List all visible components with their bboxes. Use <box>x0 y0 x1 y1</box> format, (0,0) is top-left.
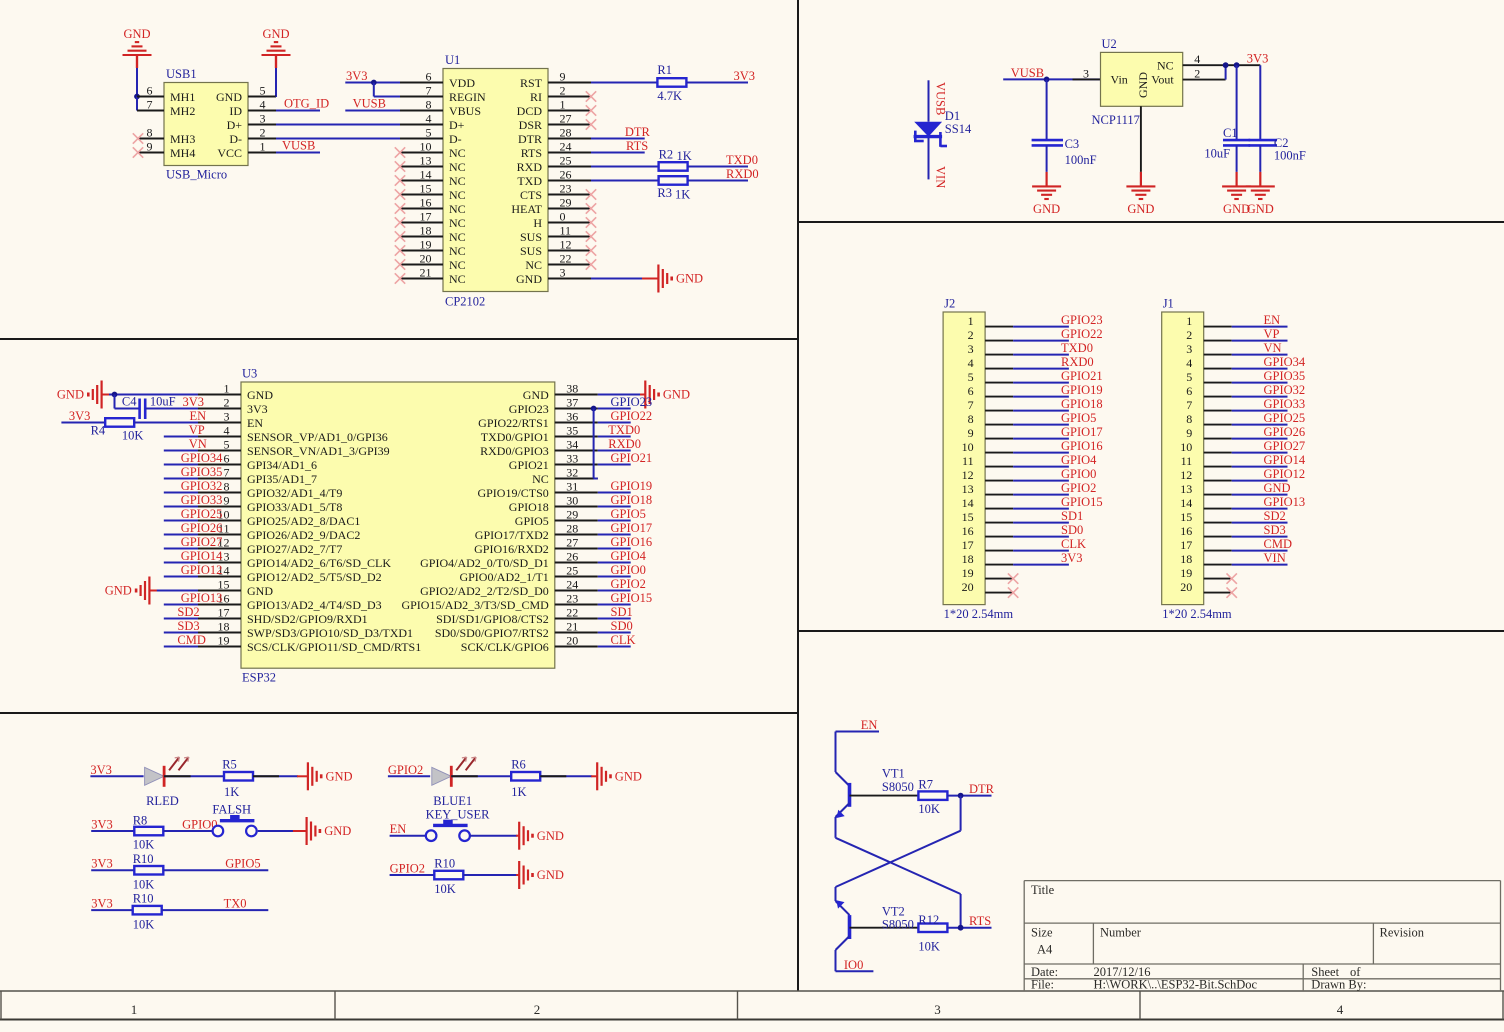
svg-text:GPIO0: GPIO0 <box>1061 467 1096 481</box>
svg-text:GND: GND <box>676 272 703 286</box>
svg-text:4: 4 <box>1186 356 1192 370</box>
svg-text:16: 16 <box>1180 524 1192 538</box>
svg-text:18: 18 <box>218 620 230 634</box>
svg-text:1: 1 <box>131 1002 138 1017</box>
svg-text:RI: RI <box>530 90 542 104</box>
svg-text:D1: D1 <box>945 109 960 123</box>
svg-text:12: 12 <box>560 238 572 252</box>
svg-text:NC: NC <box>449 216 466 230</box>
svg-text:GPIO33: GPIO33 <box>181 493 223 507</box>
svg-text:GPIO15: GPIO15 <box>1061 495 1103 509</box>
svg-text:USB_Micro: USB_Micro <box>166 168 227 182</box>
svg-text:GPIO2: GPIO2 <box>611 577 646 591</box>
svg-text:VN: VN <box>189 437 207 451</box>
svg-text:Size: Size <box>1031 926 1053 940</box>
svg-text:SD1: SD1 <box>1061 509 1083 523</box>
svg-text:GPIO16/RXD2: GPIO16/RXD2 <box>474 542 549 556</box>
svg-text:Revision: Revision <box>1380 926 1425 940</box>
svg-text:EN: EN <box>390 822 407 836</box>
svg-text:GND: GND <box>247 388 273 402</box>
svg-text:29: 29 <box>566 508 578 522</box>
svg-text:EN: EN <box>1264 313 1281 327</box>
svg-text:3V3: 3V3 <box>183 395 205 409</box>
svg-text:R7: R7 <box>918 777 933 791</box>
svg-text:10K: 10K <box>122 428 144 442</box>
svg-text:14: 14 <box>962 496 974 510</box>
svg-text:DTR: DTR <box>518 132 542 146</box>
svg-text:GPIO12/AD2_5/T5/SD_D2: GPIO12/AD2_5/T5/SD_D2 <box>247 570 382 584</box>
svg-text:NC: NC <box>449 188 466 202</box>
svg-text:NC: NC <box>525 258 542 272</box>
svg-text:KEY_USER: KEY_USER <box>426 807 491 821</box>
svg-text:GPIO13: GPIO13 <box>1264 495 1306 509</box>
svg-text:VUSB: VUSB <box>1011 66 1044 80</box>
svg-text:A4: A4 <box>1037 943 1053 957</box>
svg-text:33: 33 <box>566 452 578 466</box>
svg-text:GND: GND <box>324 824 351 838</box>
svg-text:GPIO23: GPIO23 <box>1061 313 1103 327</box>
svg-text:18: 18 <box>962 552 974 566</box>
svg-text:J2: J2 <box>944 297 955 311</box>
svg-text:3: 3 <box>968 342 974 356</box>
svg-text:28: 28 <box>566 522 578 536</box>
svg-text:SWP/SD3/GPIO10/SD_D3/TXD1: SWP/SD3/GPIO10/SD_D3/TXD1 <box>247 626 413 640</box>
svg-text:GPIO27: GPIO27 <box>181 535 223 549</box>
svg-text:R4: R4 <box>91 424 106 438</box>
svg-text:36: 36 <box>566 410 578 424</box>
svg-text:U1: U1 <box>445 53 460 67</box>
svg-text:3: 3 <box>260 112 266 126</box>
svg-text:15: 15 <box>218 578 230 592</box>
svg-text:R2: R2 <box>659 148 674 162</box>
svg-text:6: 6 <box>1186 384 1192 398</box>
svg-text:RST: RST <box>520 76 543 90</box>
svg-text:GPIO22: GPIO22 <box>1061 327 1103 341</box>
svg-text:R10: R10 <box>133 892 154 906</box>
svg-text:15: 15 <box>962 510 974 524</box>
svg-text:15: 15 <box>420 182 432 196</box>
svg-text:CMD: CMD <box>1264 537 1292 551</box>
svg-text:DTR: DTR <box>625 125 651 139</box>
svg-text:2: 2 <box>968 328 974 342</box>
svg-text:3V3: 3V3 <box>1247 52 1269 66</box>
svg-text:GPIO4: GPIO4 <box>611 549 647 563</box>
svg-text:NC: NC <box>449 258 466 272</box>
svg-text:13: 13 <box>420 154 432 168</box>
svg-text:34: 34 <box>566 438 578 452</box>
svg-text:C3: C3 <box>1065 137 1080 151</box>
svg-text:0: 0 <box>560 210 566 224</box>
svg-text:1K: 1K <box>511 785 526 799</box>
svg-text:1*20 2.54mm: 1*20 2.54mm <box>1162 607 1232 621</box>
svg-text:NC: NC <box>449 160 466 174</box>
svg-text:S8050: S8050 <box>882 918 914 932</box>
svg-text:3: 3 <box>1186 342 1192 356</box>
svg-text:C4: C4 <box>122 395 137 409</box>
svg-text:VT2: VT2 <box>882 904 905 918</box>
svg-text:VT1: VT1 <box>882 767 905 781</box>
svg-text:GPIO17/TXD2: GPIO17/TXD2 <box>475 528 549 542</box>
svg-text:10K: 10K <box>918 940 940 954</box>
svg-text:GPIO21: GPIO21 <box>1061 369 1103 383</box>
svg-text:9: 9 <box>560 70 566 84</box>
svg-text:14: 14 <box>420 168 432 182</box>
svg-text:SHD/SD2/GPIO9/RXD1: SHD/SD2/GPIO9/RXD1 <box>247 612 368 626</box>
svg-text:GPIO17: GPIO17 <box>1061 425 1103 439</box>
svg-text:2: 2 <box>224 396 230 410</box>
svg-text:NC: NC <box>532 472 549 486</box>
svg-text:SUS: SUS <box>520 244 542 258</box>
svg-text:GND: GND <box>262 27 289 41</box>
svg-text:GPIO32: GPIO32 <box>181 479 223 493</box>
svg-text:MH2: MH2 <box>170 104 195 118</box>
svg-text:3V3: 3V3 <box>90 763 112 777</box>
svg-text:GPIO14: GPIO14 <box>181 549 223 563</box>
svg-text:GPIO21: GPIO21 <box>611 451 653 465</box>
svg-text:10K: 10K <box>434 882 456 896</box>
svg-text:GND: GND <box>1264 481 1291 495</box>
svg-text:S8050: S8050 <box>882 780 914 794</box>
svg-text:2: 2 <box>560 84 566 98</box>
svg-text:7: 7 <box>147 98 153 112</box>
svg-text:GND: GND <box>1247 202 1274 216</box>
svg-text:1: 1 <box>224 382 230 396</box>
svg-text:D-: D- <box>449 132 462 146</box>
svg-text:GPIO19/CTS0: GPIO19/CTS0 <box>477 486 548 500</box>
svg-text:U2: U2 <box>1102 37 1117 51</box>
svg-text:NC: NC <box>449 272 466 286</box>
svg-text:2: 2 <box>1194 66 1200 80</box>
svg-text:GPIO12: GPIO12 <box>1264 467 1306 481</box>
svg-text:Vin: Vin <box>1111 73 1128 87</box>
svg-text:REGIN: REGIN <box>449 90 486 104</box>
svg-text:14: 14 <box>1180 496 1192 510</box>
svg-text:RXD0/GPIO3: RXD0/GPIO3 <box>480 444 549 458</box>
svg-text:4: 4 <box>224 424 230 438</box>
svg-text:4: 4 <box>426 112 432 126</box>
svg-text:R3: R3 <box>657 186 672 200</box>
svg-text:GPIO33/AD1_5/T8: GPIO33/AD1_5/T8 <box>247 500 342 514</box>
svg-text:4: 4 <box>1194 52 1200 66</box>
svg-text:FALSH: FALSH <box>212 803 251 817</box>
svg-text:2: 2 <box>260 126 266 140</box>
svg-text:GPIO25/AD2_8/DAC1: GPIO25/AD2_8/DAC1 <box>247 514 360 528</box>
svg-text:GPIO35: GPIO35 <box>1264 369 1306 383</box>
svg-text:MH4: MH4 <box>170 146 195 160</box>
svg-text:18: 18 <box>1180 552 1192 566</box>
svg-text:NC: NC <box>449 244 466 258</box>
svg-text:RXD0: RXD0 <box>1061 355 1094 369</box>
svg-text:R10: R10 <box>434 857 455 871</box>
svg-text:27: 27 <box>566 536 578 550</box>
svg-text:12: 12 <box>962 468 974 482</box>
svg-text:5: 5 <box>224 438 230 452</box>
svg-text:MH1: MH1 <box>170 90 195 104</box>
svg-text:9: 9 <box>1186 426 1192 440</box>
svg-text:5: 5 <box>1186 370 1192 384</box>
svg-text:TXD0: TXD0 <box>726 153 758 167</box>
svg-text:4: 4 <box>968 356 974 370</box>
svg-text:GPIO18: GPIO18 <box>509 500 549 514</box>
svg-text:GPIO0/AD2_1/T1: GPIO0/AD2_1/T1 <box>459 570 548 584</box>
svg-text:19: 19 <box>962 566 974 580</box>
svg-text:NC: NC <box>1157 59 1174 73</box>
svg-text:11: 11 <box>560 224 572 238</box>
svg-text:Number: Number <box>1100 926 1142 940</box>
svg-text:21: 21 <box>566 620 578 634</box>
svg-text:25: 25 <box>566 564 578 578</box>
svg-text:20: 20 <box>420 252 432 266</box>
svg-text:GND: GND <box>516 272 542 286</box>
svg-text:R1: R1 <box>657 63 672 77</box>
svg-text:GPIO25: GPIO25 <box>1264 411 1306 425</box>
svg-text:26: 26 <box>560 168 572 182</box>
svg-text:8: 8 <box>968 412 974 426</box>
svg-text:11: 11 <box>1181 454 1193 468</box>
svg-text:GPIO27/AD2_7/T7: GPIO27/AD2_7/T7 <box>247 542 342 556</box>
svg-text:GPIO13/AD2_4/T4/SD_D3: GPIO13/AD2_4/T4/SD_D3 <box>247 598 382 612</box>
svg-text:30: 30 <box>566 494 578 508</box>
svg-text:SCK/CLK/GPIO6: SCK/CLK/GPIO6 <box>461 640 549 654</box>
svg-text:11: 11 <box>962 454 974 468</box>
svg-text:100nF: 100nF <box>1274 149 1306 163</box>
svg-text:GPIO15/AD2_3/T3/SD_CMD: GPIO15/AD2_3/T3/SD_CMD <box>401 598 549 612</box>
svg-text:H: H <box>533 216 542 230</box>
svg-text:CTS: CTS <box>520 188 542 202</box>
svg-text:9: 9 <box>147 140 153 154</box>
svg-text:GPIO14: GPIO14 <box>1264 453 1306 467</box>
svg-text:VBUS: VBUS <box>449 104 481 118</box>
svg-text:1K: 1K <box>675 188 690 202</box>
svg-text:MH3: MH3 <box>170 132 195 146</box>
svg-text:20: 20 <box>1180 580 1192 594</box>
svg-text:R6: R6 <box>511 758 526 772</box>
svg-text:23: 23 <box>566 592 578 606</box>
svg-text:3V3: 3V3 <box>91 896 113 910</box>
svg-text:GPIO26: GPIO26 <box>181 521 223 535</box>
svg-text:R5: R5 <box>222 758 237 772</box>
svg-text:12: 12 <box>1180 468 1192 482</box>
svg-text:35: 35 <box>566 424 578 438</box>
svg-text:GPIO27: GPIO27 <box>1264 439 1306 453</box>
svg-text:1: 1 <box>968 314 974 328</box>
svg-text:SUS: SUS <box>520 230 542 244</box>
svg-text:19: 19 <box>218 634 230 648</box>
svg-text:10: 10 <box>962 440 974 454</box>
svg-text:CMD: CMD <box>177 633 205 647</box>
svg-text:15: 15 <box>1180 510 1192 524</box>
svg-text:GND: GND <box>663 388 690 402</box>
svg-text:3V3: 3V3 <box>247 402 268 416</box>
svg-text:GPIO34: GPIO34 <box>181 451 223 465</box>
svg-text:GPIO33: GPIO33 <box>1264 397 1306 411</box>
svg-text:22: 22 <box>560 252 572 266</box>
svg-text:SD3: SD3 <box>177 619 199 633</box>
svg-text:CP2102: CP2102 <box>445 295 485 309</box>
svg-text:GPIO35: GPIO35 <box>181 465 223 479</box>
svg-text:GPIO18: GPIO18 <box>1061 397 1103 411</box>
svg-text:GPIO22: GPIO22 <box>611 409 653 423</box>
svg-text:TX0: TX0 <box>224 896 247 910</box>
svg-text:1*20 2.54mm: 1*20 2.54mm <box>944 607 1014 621</box>
svg-text:9: 9 <box>224 494 230 508</box>
svg-text:SD1: SD1 <box>611 605 633 619</box>
svg-text:Title: Title <box>1031 883 1055 897</box>
svg-text:3: 3 <box>934 1002 941 1017</box>
svg-text:GPIO5: GPIO5 <box>515 514 549 528</box>
svg-text:3V3: 3V3 <box>1061 551 1083 565</box>
svg-text:21: 21 <box>420 266 432 280</box>
svg-text:SCS/CLK/GPIO11/SD_CMD/RTS1: SCS/CLK/GPIO11/SD_CMD/RTS1 <box>247 640 421 654</box>
svg-text:SS14: SS14 <box>945 122 972 136</box>
svg-text:24: 24 <box>560 140 572 154</box>
svg-text:D+: D+ <box>227 118 243 132</box>
svg-text:3V3: 3V3 <box>69 409 91 423</box>
svg-text:16: 16 <box>420 196 432 210</box>
svg-text:20: 20 <box>962 580 974 594</box>
svg-text:1: 1 <box>560 98 566 112</box>
svg-text:GND: GND <box>1033 202 1060 216</box>
svg-text:GPIO26: GPIO26 <box>1264 425 1306 439</box>
svg-text:NC: NC <box>449 202 466 216</box>
svg-text:CLK: CLK <box>611 633 636 647</box>
svg-text:ID: ID <box>229 104 242 118</box>
svg-text:U3: U3 <box>242 367 257 381</box>
svg-text:GPIO19: GPIO19 <box>1061 383 1103 397</box>
svg-text:100nF: 100nF <box>1065 153 1097 167</box>
svg-text:R8: R8 <box>133 814 148 828</box>
svg-text:GND: GND <box>537 829 564 843</box>
svg-text:17: 17 <box>420 210 432 224</box>
svg-text:GPIO5: GPIO5 <box>611 507 646 521</box>
svg-text:6: 6 <box>968 384 974 398</box>
svg-text:GND: GND <box>123 27 150 41</box>
svg-text:EN: EN <box>861 718 878 732</box>
svg-text:27: 27 <box>560 112 572 126</box>
svg-text:8: 8 <box>1186 412 1192 426</box>
svg-text:GPIO18: GPIO18 <box>611 493 653 507</box>
svg-text:GPIO2/AD2_2/T2/SD_D0: GPIO2/AD2_2/T2/SD_D0 <box>420 584 549 598</box>
svg-text:4.7K: 4.7K <box>657 89 682 103</box>
svg-text:23: 23 <box>560 182 572 196</box>
svg-text:5: 5 <box>260 84 266 98</box>
svg-text:IO0: IO0 <box>844 958 863 972</box>
svg-text:16: 16 <box>962 524 974 538</box>
svg-text:NC: NC <box>449 146 466 160</box>
svg-text:10: 10 <box>420 140 432 154</box>
svg-text:3: 3 <box>224 410 230 424</box>
svg-text:5: 5 <box>426 126 432 140</box>
svg-text:DTR: DTR <box>969 782 995 796</box>
svg-text:31: 31 <box>566 480 578 494</box>
svg-text:29: 29 <box>560 196 572 210</box>
svg-text:DSR: DSR <box>519 118 542 132</box>
svg-text:H:\WORK\..\ESP32-Bit.SchDoc: H:\WORK\..\ESP32-Bit.SchDoc <box>1094 978 1258 992</box>
svg-text:4: 4 <box>1337 1002 1344 1017</box>
svg-text:GPIO5: GPIO5 <box>225 857 260 871</box>
svg-text:D-: D- <box>229 132 242 146</box>
svg-text:SD3: SD3 <box>1264 523 1286 537</box>
svg-text:J1: J1 <box>1163 297 1174 311</box>
svg-text:GND: GND <box>1136 72 1150 98</box>
svg-text:4: 4 <box>260 98 266 112</box>
svg-text:TXD0: TXD0 <box>608 423 640 437</box>
svg-text:10K: 10K <box>133 917 155 931</box>
svg-text:32: 32 <box>566 466 578 480</box>
svg-text:3: 3 <box>1083 66 1089 80</box>
svg-text:10uF: 10uF <box>1204 147 1230 161</box>
svg-text:GPIO2: GPIO2 <box>388 763 423 777</box>
svg-text:TXD: TXD <box>517 174 542 188</box>
svg-text:GND: GND <box>615 770 642 784</box>
svg-text:GPIO16: GPIO16 <box>611 535 653 549</box>
svg-text:RXD0: RXD0 <box>726 167 759 181</box>
svg-text:GPIO32/AD1_4/T9: GPIO32/AD1_4/T9 <box>247 486 342 500</box>
svg-text:1: 1 <box>1186 314 1192 328</box>
svg-text:8: 8 <box>224 480 230 494</box>
svg-text:OTG_ID: OTG_ID <box>284 97 329 111</box>
svg-text:GPIO14/AD2_6/T6/SD_CLK: GPIO14/AD2_6/T6/SD_CLK <box>247 556 391 570</box>
svg-text:C1: C1 <box>1223 126 1238 140</box>
svg-text:7: 7 <box>426 84 432 98</box>
svg-text:DCD: DCD <box>517 104 543 118</box>
svg-text:10K: 10K <box>918 802 940 816</box>
svg-text:Vout: Vout <box>1151 73 1174 87</box>
svg-text:GPI35/AD1_7: GPI35/AD1_7 <box>247 472 317 486</box>
svg-text:R12: R12 <box>918 913 939 927</box>
svg-text:GPIO34: GPIO34 <box>1264 355 1306 369</box>
svg-text:GND: GND <box>537 868 564 882</box>
svg-text:37: 37 <box>566 396 578 410</box>
svg-text:RTS: RTS <box>969 914 991 928</box>
svg-text:GPIO26/AD2_9/DAC2: GPIO26/AD2_9/DAC2 <box>247 528 360 542</box>
svg-text:R10: R10 <box>133 852 154 866</box>
svg-text:7: 7 <box>968 398 974 412</box>
svg-text:SD2: SD2 <box>1264 509 1286 523</box>
svg-text:6: 6 <box>426 70 432 84</box>
svg-text:GND: GND <box>105 584 132 598</box>
svg-text:D+: D+ <box>449 118 465 132</box>
svg-text:GPIO21: GPIO21 <box>509 458 549 472</box>
svg-text:17: 17 <box>962 538 974 552</box>
svg-text:7: 7 <box>224 466 230 480</box>
svg-text:GND: GND <box>57 388 84 402</box>
svg-text:5: 5 <box>968 370 974 384</box>
svg-text:RTS: RTS <box>521 146 542 160</box>
svg-text:10K: 10K <box>133 838 155 852</box>
svg-text:3V3: 3V3 <box>91 817 113 831</box>
svg-text:26: 26 <box>566 550 578 564</box>
svg-text:GPIO25: GPIO25 <box>181 507 223 521</box>
svg-text:GPIO16: GPIO16 <box>1061 439 1103 453</box>
svg-text:7: 7 <box>1186 398 1192 412</box>
svg-text:BLUE1: BLUE1 <box>433 794 472 808</box>
svg-text:GPIO19: GPIO19 <box>611 479 653 493</box>
svg-text:GPI34/AD1_6: GPI34/AD1_6 <box>247 458 317 472</box>
svg-text:NCP1117: NCP1117 <box>1092 113 1140 127</box>
svg-text:SDI/SD1/GPIO8/CTS2: SDI/SD1/GPIO8/CTS2 <box>436 612 549 626</box>
svg-text:17: 17 <box>218 606 230 620</box>
svg-text:RTS: RTS <box>626 139 648 153</box>
svg-text:SENSOR_VP/AD1_0/GPI36: SENSOR_VP/AD1_0/GPI36 <box>247 430 388 444</box>
svg-text:24: 24 <box>566 578 578 592</box>
svg-text:6: 6 <box>147 84 153 98</box>
svg-text:GPIO12: GPIO12 <box>181 563 223 577</box>
svg-text:8: 8 <box>147 126 153 140</box>
svg-text:GPIO23: GPIO23 <box>611 395 653 409</box>
svg-text:TXD0: TXD0 <box>1061 341 1093 355</box>
svg-text:18: 18 <box>420 224 432 238</box>
